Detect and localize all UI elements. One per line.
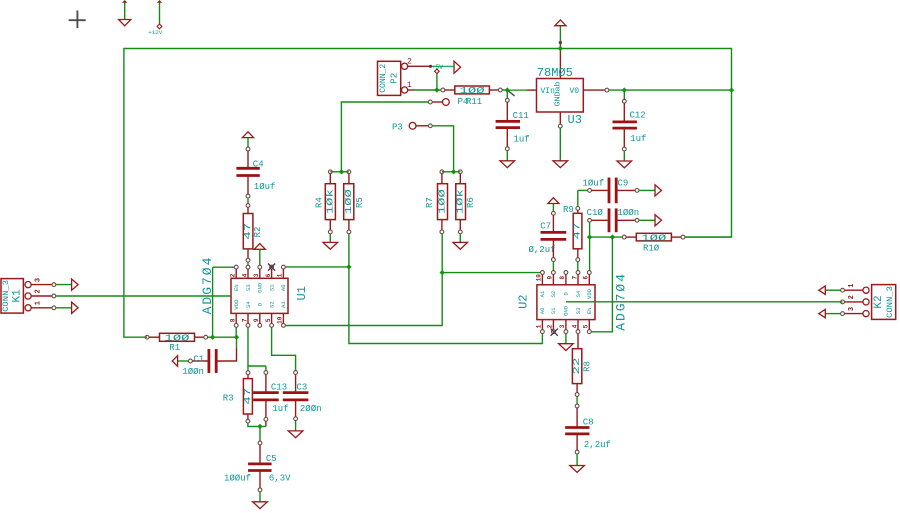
svg-text:R2: R2 xyxy=(253,227,263,238)
svg-text:A1: A1 xyxy=(539,290,546,297)
svg-text:A0: A0 xyxy=(280,284,287,291)
svg-text:1: 1 xyxy=(536,324,543,328)
svg-text:1Øk: 1Øk xyxy=(325,189,335,214)
svg-text:R1Ø: R1Ø xyxy=(643,243,660,253)
svg-text:S3: S3 xyxy=(245,284,252,291)
svg-text:22: 22 xyxy=(572,358,582,375)
svg-text:P2: P2 xyxy=(390,73,400,84)
svg-text:C5: C5 xyxy=(266,454,277,464)
svg-text:8: 8 xyxy=(230,318,237,322)
svg-text:1ØØ: 1ØØ xyxy=(165,334,191,344)
svg-text:U2: U2 xyxy=(517,294,531,308)
svg-text:S4: S4 xyxy=(245,301,252,308)
svg-text:K2: K2 xyxy=(873,295,885,308)
svg-text:1ØØ: 1ØØ xyxy=(641,233,667,243)
svg-text:C1Ø: C1Ø xyxy=(587,208,604,218)
svg-text:+12V: +12V xyxy=(148,29,162,36)
svg-text:6: 6 xyxy=(265,273,272,277)
svg-text:R6: R6 xyxy=(466,197,476,208)
svg-text:1uf: 1uf xyxy=(514,135,530,145)
svg-text:1: 1 xyxy=(407,81,412,90)
svg-text:3: 3 xyxy=(559,324,566,328)
svg-text:S3: S3 xyxy=(575,308,582,315)
svg-text:R3: R3 xyxy=(223,393,234,403)
svg-text:VDD: VDD xyxy=(586,288,593,299)
svg-text:3: 3 xyxy=(253,273,260,277)
svg-text:1Øk: 1Øk xyxy=(456,189,466,214)
svg-text:78MØ5: 78MØ5 xyxy=(537,66,573,80)
svg-text:1: 1 xyxy=(35,301,43,305)
svg-text:A1: A1 xyxy=(280,301,287,308)
svg-text:CONN_3: CONN_3 xyxy=(2,280,11,312)
svg-text:9: 9 xyxy=(547,276,554,280)
svg-text:R9: R9 xyxy=(563,205,574,215)
svg-text:U1: U1 xyxy=(295,286,309,300)
svg-text:C3: C3 xyxy=(297,382,308,392)
svg-text:2: 2 xyxy=(230,273,237,277)
svg-text:C9: C9 xyxy=(618,178,629,188)
svg-text:1ØØn: 1ØØn xyxy=(182,367,204,377)
svg-text:2: 2 xyxy=(547,324,554,328)
svg-text:1ØØ: 1ØØ xyxy=(438,188,448,214)
svg-text:7: 7 xyxy=(241,318,248,322)
svg-text:9: 9 xyxy=(253,318,260,322)
svg-text:5: 5 xyxy=(265,318,272,322)
svg-text:R11: R11 xyxy=(466,97,482,107)
svg-text:S4: S4 xyxy=(575,290,582,297)
svg-text:C13: C13 xyxy=(271,382,287,392)
svg-text:P3: P3 xyxy=(392,122,403,132)
svg-text:R1: R1 xyxy=(169,343,180,353)
svg-text:7: 7 xyxy=(571,276,578,280)
svg-text:R5: R5 xyxy=(355,197,365,208)
svg-text:1ØØ: 1ØØ xyxy=(460,86,486,96)
svg-text:S1: S1 xyxy=(268,284,275,291)
svg-text:C8: C8 xyxy=(583,417,594,427)
svg-text:VDD: VDD xyxy=(233,299,240,310)
svg-text:1: 1 xyxy=(277,273,284,277)
svg-text:6,3V: 6,3V xyxy=(269,473,291,483)
svg-text:C11: C11 xyxy=(513,111,529,121)
svg-text:EN: EN xyxy=(586,308,593,315)
svg-text:A0: A0 xyxy=(539,307,546,314)
svg-text:10: 10 xyxy=(277,316,284,324)
svg-text:47: 47 xyxy=(243,223,253,240)
svg-text:V0: V0 xyxy=(570,87,580,96)
svg-text:3: 3 xyxy=(848,307,856,311)
svg-text:CONN_2: CONN_2 xyxy=(379,64,388,93)
svg-text:5: 5 xyxy=(583,324,590,328)
svg-text:R4: R4 xyxy=(314,197,324,208)
svg-text:S2: S2 xyxy=(268,301,275,308)
svg-text:1Øuf: 1Øuf xyxy=(254,182,276,192)
svg-text:C12: C12 xyxy=(630,111,646,121)
svg-text:2: 2 xyxy=(35,289,43,293)
svg-text:1ØØn: 1ØØn xyxy=(618,208,640,218)
svg-text:GNDab: GNDab xyxy=(554,82,562,107)
svg-text:47: 47 xyxy=(573,223,583,240)
svg-text:GND: GND xyxy=(563,305,570,316)
svg-text:1ØØuf: 1ØØuf xyxy=(224,473,251,483)
svg-text:10: 10 xyxy=(536,274,543,282)
svg-text:1uf: 1uf xyxy=(630,134,646,144)
svg-text:1ØØ: 1ØØ xyxy=(344,188,354,214)
svg-text:2,2uf: 2,2uf xyxy=(584,440,611,450)
svg-text:EN: EN xyxy=(233,284,240,291)
svg-text:C7: C7 xyxy=(540,222,551,232)
svg-text:1uf: 1uf xyxy=(272,404,288,414)
svg-text:2: 2 xyxy=(407,58,412,67)
svg-text:1: 1 xyxy=(848,283,856,287)
svg-text:C4: C4 xyxy=(253,159,264,169)
svg-text:K1: K1 xyxy=(11,289,23,303)
svg-text:6: 6 xyxy=(583,276,590,280)
svg-text:Ø,2uf: Ø,2uf xyxy=(529,245,556,255)
svg-text:S1: S1 xyxy=(550,307,557,314)
svg-text:3: 3 xyxy=(35,278,43,282)
svg-text:R7: R7 xyxy=(425,197,435,208)
svg-text:4: 4 xyxy=(571,324,578,328)
svg-text:2: 2 xyxy=(848,295,856,299)
svg-text:47: 47 xyxy=(243,388,253,405)
svg-text:GND: GND xyxy=(257,282,264,293)
svg-text:2ØØn: 2ØØn xyxy=(300,404,322,414)
svg-text:CONN_3: CONN_3 xyxy=(886,286,895,318)
svg-text:C1: C1 xyxy=(193,354,204,364)
svg-text:4: 4 xyxy=(241,273,248,277)
svg-text:R8: R8 xyxy=(583,361,593,372)
svg-text:8: 8 xyxy=(559,276,566,280)
svg-text:VIn: VIn xyxy=(541,87,556,96)
svg-text:S2: S2 xyxy=(550,291,557,298)
svg-text:1Øuf: 1Øuf xyxy=(583,178,605,188)
svg-text:U3: U3 xyxy=(568,113,582,127)
